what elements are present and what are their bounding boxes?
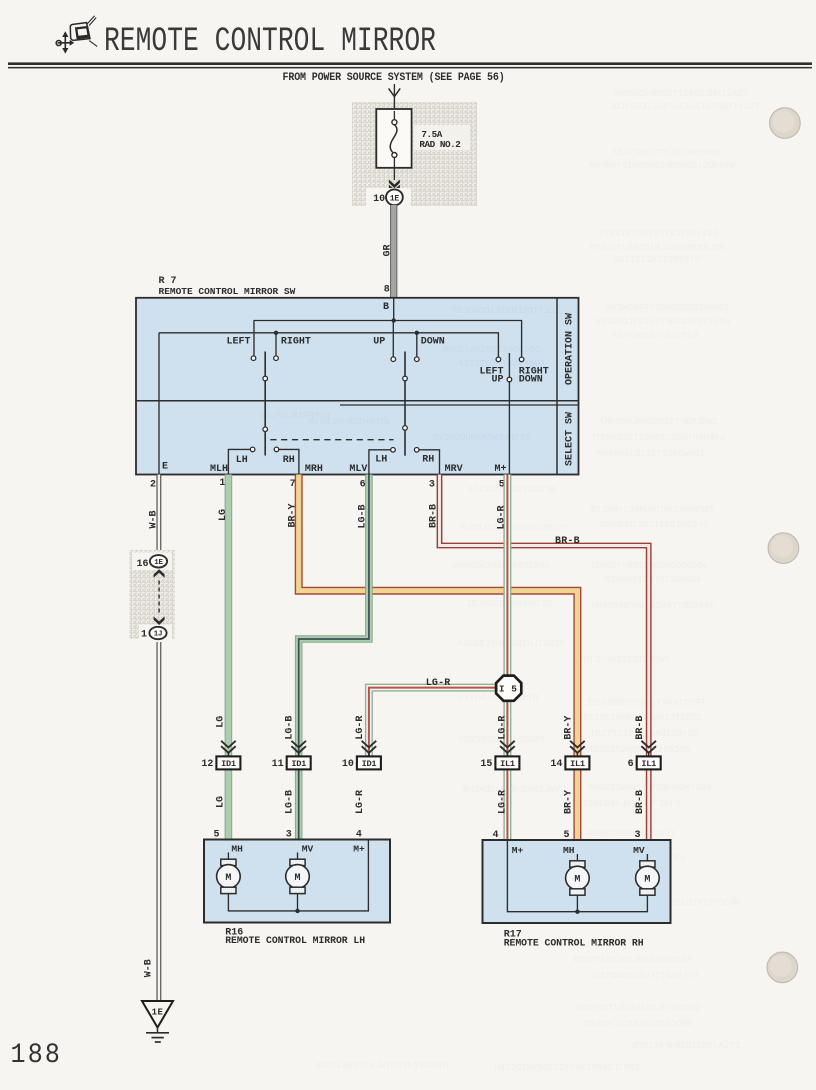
svg-text:DOWN: DOWN [421, 337, 445, 348]
svg-text:M: M [644, 875, 650, 886]
svg-text:UP: UP [491, 375, 503, 386]
svg-text:LG-B: LG-B [285, 790, 296, 814]
svg-text:W76MUG1CB0H3KC6H6DNIPY5MFMM: W76MUG1CB0H3KC6H6DNIPY5MFMM [589, 161, 735, 171]
svg-text:REMOTE CONTROL MIRROR LH: REMOTE CONTROL MIRROR LH [225, 935, 365, 946]
svg-text:1E: 1E [152, 1008, 164, 1018]
svg-text:H0L533BH5B4LNICG89U71LGYR: H0L533BH5B4LNICG89U71LGYR [589, 243, 725, 253]
svg-text:TG1Y1TOHPUI46A34F1OLIEG93LDC: TG1Y1TOHPUI46A34F1OLIEG93LDC [608, 102, 760, 112]
svg-text:LG-R: LG-R [426, 678, 451, 689]
svg-text:LG: LG [216, 716, 227, 728]
svg-text:MV: MV [302, 843, 314, 854]
svg-text:ID1: ID1 [221, 759, 236, 769]
svg-text:OWSDN7UGIB1OAS84T029220: OWSDN7UGIB1OAS84T029220 [576, 1003, 700, 1013]
svg-text:LG-B: LG-B [358, 504, 369, 528]
svg-text:PWUDCTGSIE8M7C7HMK: PWUDCTGSIE8M7C7HMK [572, 655, 670, 665]
svg-text:IF41DN6B6RHG58PM: IF41DN6B6RHG58PM [589, 829, 675, 839]
svg-text:4: 4 [356, 830, 362, 841]
svg-text:8TP7F26RPI3H5YI33SRYHIPC1KH: 8TP7F26RPI3H5YI33SRYHIPC1KH [494, 1063, 640, 1073]
svg-text:W-B: W-B [144, 959, 155, 977]
svg-text:NDM6MWI4B2PTD8NCTK5Y: NDM6MWI4B2PTD8NCTK5Y [611, 148, 720, 158]
svg-text:BR-Y: BR-Y [288, 503, 299, 527]
svg-text:IS6WO9G8T321G1KN0YMP: IS6WO9G8T321G1KN0YMP [597, 449, 705, 459]
svg-text:LG-B: LG-B [285, 716, 296, 740]
svg-text:E: E [162, 462, 168, 473]
svg-text:2: 2 [150, 479, 156, 490]
svg-text:BR-B: BR-B [635, 790, 646, 814]
svg-text:ADC9717ETB5MUTEOEBKM78: ADC9717ETB5MUTEOEBKM78 [571, 745, 690, 755]
svg-text:E6PFBINLGPLL3: E6PFBINLGPLL3 [260, 411, 330, 421]
svg-text:1: 1 [141, 630, 147, 641]
svg-text:BR-B: BR-B [555, 536, 580, 547]
svg-text:K546HHA0GNLI6C93IMYSN0: K546HHA0GNLI6C93IMYSN0 [573, 955, 692, 965]
svg-text:BR-B: BR-B [635, 716, 646, 740]
svg-text:6LCSHI0RGTE287UURH4R: 6LCSHI0RGTE287UURH4R [599, 520, 708, 530]
svg-text:MRH: MRH [305, 464, 323, 475]
svg-text:14: 14 [550, 759, 562, 770]
svg-text:LEFT: LEFT [226, 337, 250, 348]
svg-text:DOWN: DOWN [519, 375, 543, 386]
svg-text:11: 11 [272, 759, 284, 770]
svg-text:1E: 1E [390, 194, 400, 203]
svg-text:M+: M+ [353, 843, 365, 854]
svg-text:FROM POWER SOURCE SYSTEM (SEE: FROM POWER SOURCE SYSTEM (SEE PAGE 56) [283, 71, 505, 84]
svg-text:46DHGGTPEOFIPH68CP: 46DHGGTPEOFIPH68CP [605, 575, 702, 585]
svg-text:8: 8 [384, 285, 390, 296]
svg-text:LG-R: LG-R [498, 716, 509, 740]
svg-text:FP5T1KW4YSA05TK80D97EI: FP5T1KW4YSA05TK80D97EI [586, 698, 705, 708]
svg-text:MRV: MRV [445, 464, 463, 475]
svg-text:5TL9AD7IFU9IBDWOM24L: 5TL9AD7IFU9IBDWOM24L [590, 971, 698, 981]
svg-text:IL1: IL1 [641, 759, 656, 769]
svg-text:3: 3 [634, 830, 640, 841]
svg-text:UP: UP [373, 337, 385, 348]
svg-text:2F5P8EWTA8NUU0ACYO: 2F5P8EWTA8NUU0ACYO [433, 433, 530, 443]
svg-text:LG-R: LG-R [497, 505, 508, 529]
svg-text:F44F7OAF28L48O40624H: F44F7OAF28L48O40624H [572, 799, 680, 809]
svg-text:LG: LG [218, 509, 229, 521]
svg-text:10: 10 [342, 759, 354, 770]
svg-text:IL1: IL1 [570, 759, 585, 769]
svg-text:15: 15 [480, 759, 492, 770]
svg-text:7UNMHESRC3B6DEYF40OWCNN: 7UNMHESRC3B6DEYF40OWCNN [606, 303, 730, 313]
svg-text:ID1: ID1 [291, 759, 306, 769]
svg-text:RIGHT: RIGHT [281, 337, 311, 348]
svg-text:B: B [383, 302, 389, 313]
svg-text:REMOTE CONTROL MIRROR RH: REMOTE CONTROL MIRROR RH [504, 937, 644, 948]
svg-text:BR-Y: BR-Y [564, 790, 575, 814]
svg-text:N78YPEIEH2TTI2UO: N78YPEIEH2TTI2UO [614, 255, 700, 265]
svg-text:188: 188 [11, 1039, 63, 1071]
svg-text:BR-B: BR-B [428, 504, 439, 528]
svg-text:MV: MV [633, 845, 645, 856]
svg-text:LG-R: LG-R [355, 716, 366, 740]
svg-text:1J: 1J [154, 631, 162, 639]
svg-text:WPSIT69A02D07T3I3YLDKOFPA: WPSIT69A02D07T3I3YLDKOFPA [594, 317, 730, 327]
svg-text:IL1: IL1 [500, 759, 515, 769]
svg-text:3: 3 [429, 479, 435, 490]
svg-text:6: 6 [360, 479, 366, 490]
svg-text:LH: LH [236, 455, 248, 466]
svg-text:S86SFB9SC6FCWC06HN: S86SFB9SC6FCWC06HN [453, 561, 550, 571]
svg-text:T01REGKG9BU2TB2LBBUR: T01REGKG9BU2TB2LBBUR [459, 523, 568, 533]
svg-text:G0I180YCWYFT2HFPNI8Y1T: G0I180YCWYFT2HFPNI8Y1T [599, 229, 718, 239]
svg-text:M: M [574, 875, 580, 886]
svg-text:4: 4 [492, 830, 498, 841]
svg-text:M: M [225, 873, 231, 884]
svg-text:12: 12 [201, 759, 213, 770]
svg-text:M+: M+ [512, 845, 524, 856]
svg-text:YDA2IHHE2D027TCUOBACGHSWA: YDA2IHHE2D027TCUOBACGHSWA [612, 89, 748, 99]
svg-text:466TDBYT5AC836HFORRG6N7: 466TDBYT5AC836HFORRG6N7 [591, 601, 715, 611]
svg-text:REMOTE CONTROL MIRROR SW: REMOTE CONTROL MIRROR SW [159, 286, 296, 297]
svg-text:MH: MH [231, 843, 243, 854]
svg-text:3: 3 [286, 830, 292, 841]
svg-text:M: M [294, 873, 300, 884]
svg-text:LH: LH [375, 454, 387, 465]
svg-text:MLV: MLV [349, 464, 367, 475]
svg-text:GMOC908LWL06D27KSK0O: GMOC908LWL06D27KSK0O [584, 1019, 692, 1029]
svg-text:M+: M+ [495, 464, 507, 475]
svg-text:ID1: ID1 [362, 759, 377, 769]
svg-text:1E: 1E [154, 559, 163, 567]
svg-text:LG-R: LG-R [498, 790, 509, 814]
svg-text:16: 16 [136, 559, 148, 570]
svg-text:7SPDHHCLAUTHUHAC1YBHC7B: 7SPDHHCLAUTHUHAC1YBHC7B [590, 505, 715, 515]
svg-text:5: 5 [563, 830, 569, 841]
svg-text:RH: RH [422, 454, 434, 465]
svg-text:MH: MH [563, 845, 575, 856]
svg-text:BFNANI844PKO1924: BFNANI844PKO1924 [469, 485, 555, 495]
svg-text:54KHBH7U9CC2R5C3T3EE0R9TF: 54KHBH7U9CC2R5C3T3EE0R9TF [590, 433, 725, 443]
svg-text:1: 1 [219, 478, 225, 489]
svg-text:9272IS3FS8D6YK5Y: 9272IS3FS8D6YK5Y [611, 331, 698, 341]
svg-text:ILL7TCEEHN1E1GCOOLTP: ILL7TCEEHN1E1GCOOLTP [452, 306, 560, 316]
svg-text:I 5: I 5 [499, 684, 518, 695]
svg-text:RAD NO.2: RAD NO.2 [419, 139, 461, 150]
svg-text:OPERATION SW: OPERATION SW [565, 313, 576, 385]
svg-text:6: 6 [628, 759, 634, 770]
svg-text:RH: RH [283, 455, 295, 466]
svg-text:LG: LG [216, 796, 227, 808]
svg-text:SWGEM3FT938S8AWLRAD8M7: SWGEM3FT938S8AWLRAD8M7 [599, 417, 718, 427]
svg-text:10: 10 [373, 194, 385, 205]
svg-text:SELECT SW: SELECT SW [565, 412, 576, 466]
svg-text:GR: GR [383, 244, 394, 256]
svg-text:TH86DPE4P0STWL937PW527SO5: TH86DPE4P0STWL937PW527SO5 [315, 1061, 450, 1071]
svg-text:W-B: W-B [149, 510, 160, 528]
svg-text:BR-Y: BR-Y [564, 716, 575, 740]
svg-text:EY1A73637D3OHF491SPB: EY1A73637D3OHF491SPB [631, 1041, 740, 1051]
svg-text:MLH: MLH [210, 464, 228, 475]
svg-text:5: 5 [213, 830, 219, 841]
svg-text:LG-R: LG-R [355, 790, 366, 814]
svg-text:OBG5ON73U91A673UNR: OBG5ON73U91A673UNR [442, 345, 540, 355]
svg-text:7: 7 [290, 479, 296, 490]
svg-text:REMOTE CONTROL MIRROR: REMOTE CONTROL MIRROR [104, 23, 436, 61]
